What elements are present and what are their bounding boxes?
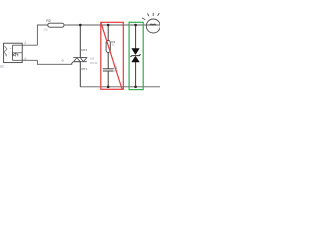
svg-text:MT2: MT2 <box>81 48 87 52</box>
node dot D1 branch <box>134 24 137 27</box>
wire R3 drop <box>107 25 109 41</box>
svg-text:G: G <box>62 59 65 63</box>
node dot R3 branch <box>107 24 110 27</box>
red annotation box <box>101 22 124 89</box>
optocoupler pin tick text <box>10 47 12 49</box>
wire R3 to C1 <box>107 52 109 68</box>
svg-text:MT1: MT1 <box>81 67 87 71</box>
wire top rail <box>64 24 160 26</box>
svg-text:U3: U3 <box>90 56 94 60</box>
optocoupler output triac glyph <box>13 53 18 56</box>
wire C1 to rail <box>107 71 109 87</box>
wire bottom rail <box>80 86 160 88</box>
green annotation box <box>129 22 143 89</box>
diac D1 <box>131 49 141 63</box>
wire riser to R2 <box>37 25 48 45</box>
resistor R3 <box>106 41 110 53</box>
svg-text:1k: 1k <box>111 44 114 47</box>
red annotation diagonal <box>101 23 122 89</box>
svg-text:BT136: BT136 <box>90 62 98 65</box>
resistor R2 <box>48 23 64 27</box>
svg-text:U2: U2 <box>0 65 4 69</box>
wire MT1 drop <box>79 62 81 87</box>
wire D1 drop <box>135 25 137 49</box>
wire D1 to rail <box>135 62 137 87</box>
node dot C1 bottom <box>107 86 110 89</box>
svg-text:220: 220 <box>44 28 49 32</box>
lamp rays <box>142 13 163 20</box>
svg-text:R2: R2 <box>46 19 50 23</box>
capacitor C1 <box>103 69 114 71</box>
optocoupler input zigzag arrow <box>4 46 7 55</box>
triac U3 <box>71 58 87 65</box>
optocoupler output mid lead <box>12 52 22 54</box>
node dot D1 bottom <box>134 86 137 89</box>
lamp X1 <box>146 19 160 33</box>
svg-text:6: 6 <box>25 57 27 61</box>
optocoupler internal vertical bar <box>11 45 13 60</box>
wire pin4 horizontal <box>12 44 37 46</box>
node dot MT2 branch <box>79 24 82 27</box>
wire pin6 horizontal <box>12 59 37 61</box>
svg-text:4: 4 <box>24 41 26 45</box>
wire gate step <box>37 60 72 64</box>
optocoupler U2 box <box>4 43 23 62</box>
wire MT2 drop <box>79 25 81 58</box>
